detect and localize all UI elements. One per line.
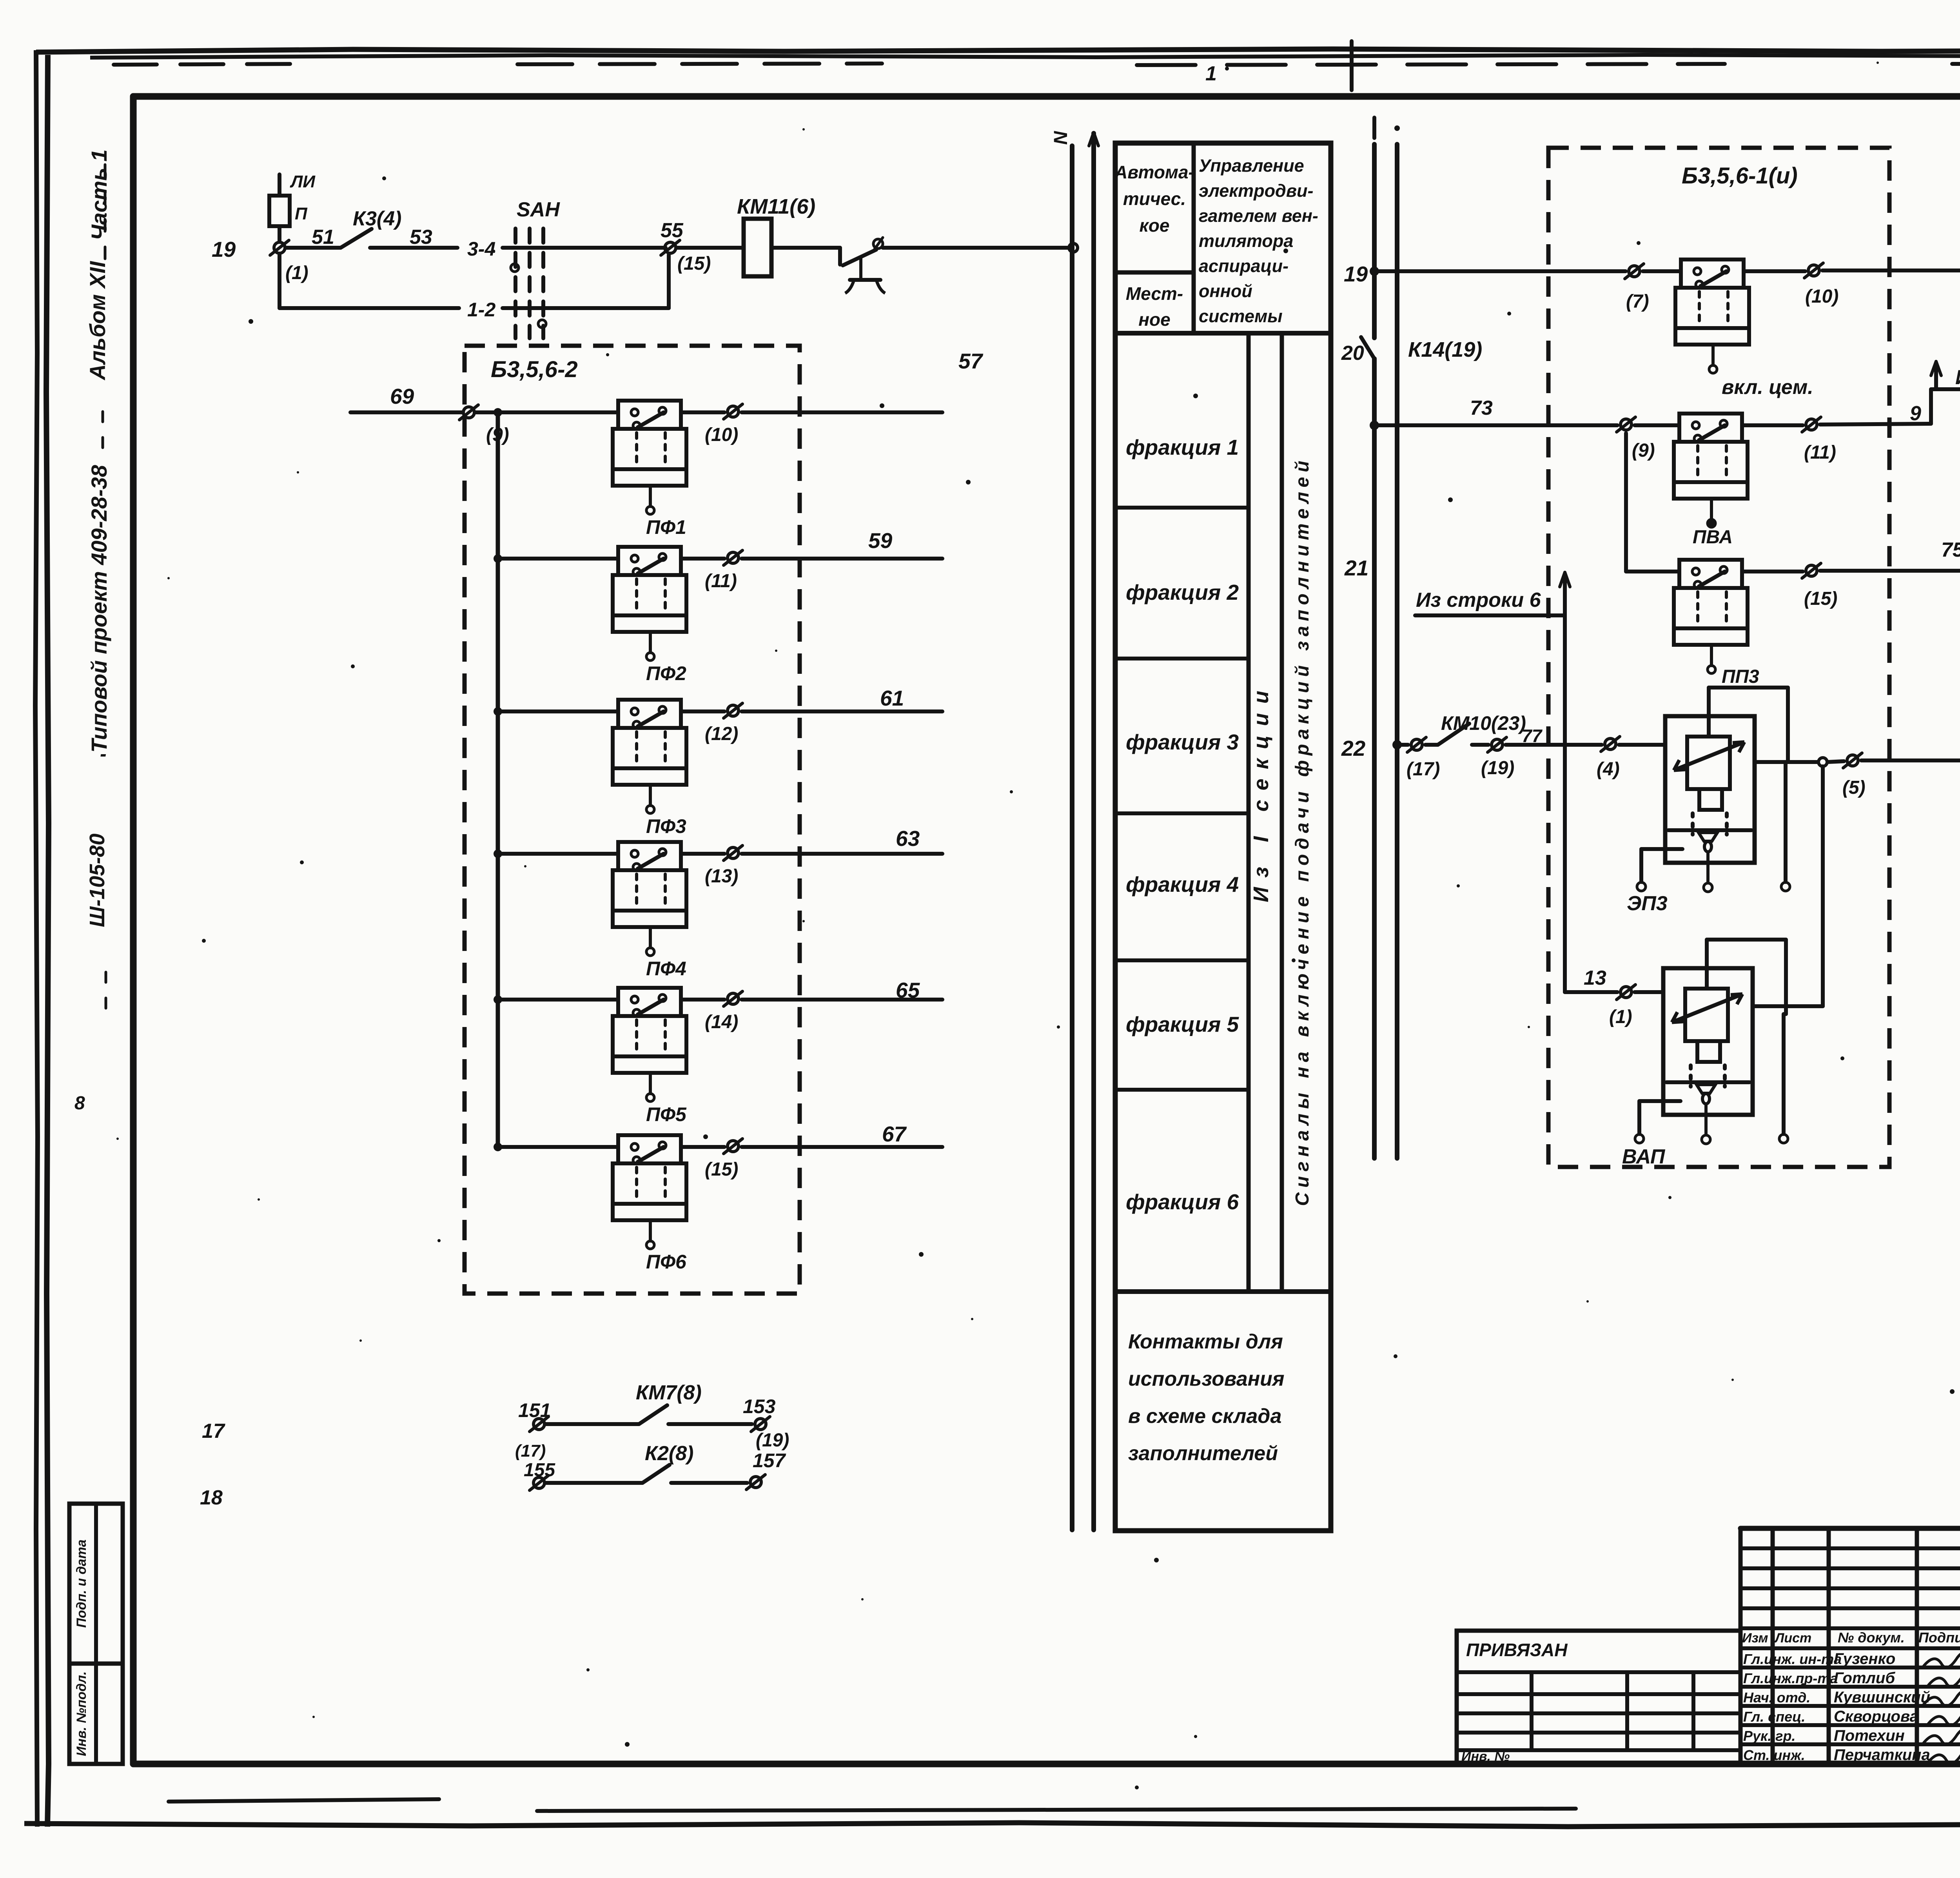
svg-text:(17): (17): [1406, 759, 1440, 780]
svg-text:КМ10(23): КМ10(23): [1441, 712, 1526, 734]
svg-text:П: П: [295, 204, 308, 223]
svg-text:фракция 4: фракция 4: [1126, 872, 1239, 896]
svg-text:Скворцова: Скворцова: [1834, 1708, 1918, 1725]
svg-text:Мест-: Мест-: [1126, 283, 1183, 304]
outer border left: [35, 50, 49, 1827]
svg-text:(15): (15): [1804, 588, 1837, 609]
outer border top: [36, 49, 1960, 65]
svg-text:SАН: SАН: [517, 198, 560, 221]
svg-text:(12): (12): [705, 724, 738, 744]
wire Из строки 4: [1931, 361, 1960, 389]
svg-text:заполнителей: заполнителей: [1128, 1442, 1278, 1465]
wire 73 from bus: [1370, 397, 1617, 430]
wire 1-2 and link down from node 1: [279, 255, 669, 321]
svg-text:73: 73: [1470, 397, 1493, 419]
svg-text:19: 19: [1344, 262, 1368, 286]
outer border bottom: [24, 1799, 1960, 1827]
feedback wire down to ВАП output: [1821, 766, 1825, 1006]
svg-text:Из строки 6: Из строки 6: [1416, 589, 1541, 611]
svg-text:(10): (10): [705, 425, 738, 445]
svg-text:Подпись: Подпись: [1918, 1629, 1960, 1646]
svg-text:использования: использования: [1128, 1368, 1284, 1390]
svg-text:ПП3: ПП3: [1722, 666, 1759, 687]
vertical wire to row 13: [1563, 615, 1567, 992]
wire 51: [287, 246, 341, 250]
terminal (1): [270, 240, 309, 283]
svg-text:Кувшинский: Кувшинский: [1834, 1689, 1930, 1706]
terminal 55 (15): [661, 219, 711, 274]
svg-text:системы: системы: [1199, 306, 1283, 326]
svg-text:(15): (15): [705, 1159, 738, 1180]
svg-text:157: 157: [753, 1450, 786, 1472]
wire Из строки 6 with arrow: [1415, 572, 1570, 615]
svg-text:(11): (11): [705, 571, 737, 592]
relay selector ПФ3 row wire 61: [494, 686, 942, 837]
wire 22 with contact КМ10(23): [1392, 712, 1665, 780]
top band marks: [1205, 41, 1352, 90]
svg-text:Гл. спец.: Гл. спец.: [1743, 1709, 1805, 1725]
bus 2 (right schematic): [1394, 125, 1400, 1158]
svg-text:(13): (13): [705, 866, 738, 887]
svg-text:Гл.инж.пр-та: Гл.инж.пр-та: [1743, 1670, 1838, 1686]
svg-text:(19): (19): [1481, 758, 1514, 778]
svg-text:Готлиб: Готлиб: [1834, 1669, 1895, 1687]
svg-text:75: 75: [1941, 539, 1960, 561]
pushbutton contact: [771, 238, 885, 293]
svg-text:59: 59: [868, 528, 893, 553]
contact КМ7(8) with terminals 151/153: [515, 1381, 789, 1461]
svg-text:ПФ2: ПФ2: [646, 662, 686, 684]
selector switch ПП3: [1626, 560, 1759, 687]
cabinet Б3,5,6-2 (dashed): [465, 346, 800, 1294]
selector switch вкл.цем.: [1643, 259, 1813, 399]
svg-text:1-2: 1-2: [467, 299, 495, 321]
svg-text:Часть 1: Часть 1: [87, 149, 111, 240]
svg-text:63: 63: [896, 826, 920, 851]
revision table header: [1742, 1629, 1960, 1646]
svg-text:19: 19: [212, 237, 236, 261]
svg-text:ЭП3: ЭП3: [1627, 892, 1668, 915]
svg-text:51: 51: [312, 226, 334, 249]
svg-text:18: 18: [200, 1486, 223, 1509]
wire 69 input: [350, 384, 463, 412]
svg-text:55: 55: [661, 219, 684, 242]
svg-text:ное: ное: [1138, 309, 1170, 330]
branch from (9) down to row 75: [1624, 433, 1628, 572]
svg-text:(19): (19): [756, 1430, 789, 1451]
relay selector ПФ6 row wire 67: [494, 1122, 942, 1273]
sidebar stamp texts: [74, 149, 111, 1114]
svg-text:Гузенко: Гузенко: [1834, 1650, 1895, 1668]
row label 20 / contact К14(19): [1341, 338, 1482, 365]
svg-text:151: 151: [518, 1399, 551, 1421]
svg-text:ПРИВЯЗАН: ПРИВЯЗАН: [1466, 1640, 1568, 1660]
svg-text:аспираци-: аспираци-: [1199, 256, 1289, 276]
svg-text:кое: кое: [1140, 215, 1170, 236]
svg-text:(9): (9): [1632, 440, 1655, 461]
fuse П with wire ЛИ: [269, 172, 316, 241]
svg-text:в схеме склада: в схеме склада: [1128, 1405, 1281, 1428]
svg-text:(11): (11): [1804, 442, 1836, 463]
svg-text:(4): (4): [1597, 759, 1620, 780]
svg-text:гателем вен-: гателем вен-: [1199, 206, 1318, 226]
svg-text:(5): (5): [1842, 777, 1866, 798]
svg-text:3-4: 3-4: [467, 238, 495, 260]
svg-text:1: 1: [1205, 62, 1217, 85]
svg-text:Нач. отд.: Нач. отд.: [1743, 1689, 1810, 1706]
svg-text:N: N: [1051, 131, 1071, 145]
svg-text:Гл.инж. ин-та: Гл.инж. ин-та: [1743, 1651, 1842, 1667]
svg-text:электродви-: электродви-: [1199, 181, 1314, 201]
wire 53: [370, 246, 457, 250]
svg-text:К14(19): К14(19): [1408, 338, 1482, 361]
bus + (left): [1089, 132, 1098, 1530]
svg-text:20: 20: [1341, 342, 1364, 365]
switch SAH: [511, 198, 560, 338]
svg-text:9: 9: [1910, 402, 1921, 425]
svg-text:17: 17: [202, 1420, 225, 1443]
svg-text:8: 8: [74, 1093, 85, 1114]
svg-text:ПФ5: ПФ5: [646, 1103, 687, 1125]
svg-text:13: 13: [1584, 967, 1606, 989]
svg-text:Из I секции: Из I секции: [1249, 681, 1273, 902]
sidebar bottom boxes: [69, 1504, 123, 1764]
svg-text:Лист: Лист: [1774, 1631, 1811, 1646]
svg-text:Рук. гр.: Рук. гр.: [1743, 1728, 1796, 1744]
svg-text:21: 21: [1344, 556, 1368, 580]
signature rows: [1743, 1650, 1960, 1764]
svg-text:фракция 1: фракция 1: [1126, 435, 1239, 459]
svg-text:(7): (7): [1626, 291, 1649, 312]
svg-text:фракция 3: фракция 3: [1126, 730, 1239, 754]
svg-text:(1): (1): [285, 263, 309, 283]
svg-text:65: 65: [896, 978, 920, 1002]
svg-text:Изм: Изм: [1742, 1631, 1768, 1646]
svg-text:КМ11(6): КМ11(6): [737, 195, 815, 218]
svg-text:Типовой проект 409-28-38: Типовой проект 409-28-38: [87, 465, 111, 753]
bus 1 (right schematic, with K14 contact): [1361, 118, 1374, 1158]
svg-text:-: -: [100, 743, 107, 765]
svg-text:61: 61: [880, 686, 904, 710]
svg-text:Ш-105-80: Ш-105-80: [85, 834, 109, 927]
svg-text:69: 69: [390, 384, 414, 408]
svg-text:(10): (10): [1805, 286, 1838, 307]
ВАП output wire up to node: [1753, 1004, 1823, 1008]
svg-text:Автома-: Автома-: [1114, 162, 1194, 182]
svg-text:ПФ6: ПФ6: [646, 1251, 687, 1273]
svg-text:ПВА: ПВА: [1693, 527, 1733, 548]
table header texts: [1114, 156, 1318, 330]
svg-text:Ст. инж.: Ст. инж.: [1743, 1747, 1805, 1763]
wire 9 via terminal (11) up to line from row 4: [1742, 389, 1931, 463]
contact К3(4): [341, 207, 401, 248]
svg-text:67: 67: [882, 1122, 907, 1146]
svg-text:К3(4): К3(4): [353, 207, 401, 230]
cabinet Б3,5,6-1(и) (dashed): [1548, 148, 1889, 1167]
svg-text:Б3,5,6-1(и): Б3,5,6-1(и): [1682, 163, 1798, 189]
pressure device ЭП3: [1627, 688, 1790, 915]
terminal (9) left cabinet: [459, 405, 509, 445]
fraction rows: [1126, 435, 1240, 1214]
relay selector ПФ2 row wire 59: [494, 528, 942, 684]
svg-text:Перчаткина: Перчаткина: [1834, 1746, 1930, 1764]
svg-text:22: 22: [1341, 736, 1366, 760]
coil КМ11(6): [677, 195, 815, 276]
svg-text:тилятора: тилятора: [1199, 231, 1293, 251]
svg-text:57: 57: [958, 349, 984, 373]
svg-text:ПФ4: ПФ4: [646, 958, 686, 980]
svg-text:ЛИ: ЛИ: [290, 172, 316, 191]
svg-text:вкл. цем.: вкл. цем.: [1722, 376, 1813, 399]
svg-text:Потехин: Потехин: [1834, 1727, 1905, 1744]
svg-text:Контакты для: Контакты для: [1128, 1330, 1283, 1353]
relay selector ПФ4 row wire 63: [494, 826, 942, 980]
svg-text:(17): (17): [515, 1441, 546, 1461]
svg-text:Альбом XII: Альбом XII: [85, 261, 110, 381]
svg-text:(1): (1): [1609, 1007, 1632, 1027]
svg-text:онной: онной: [1199, 281, 1252, 301]
svg-text:фракция 6: фракция 6: [1126, 1190, 1239, 1214]
ПРИВЯЗАН table: [1457, 1631, 1740, 1764]
svg-text:(14): (14): [705, 1012, 738, 1032]
relay selector ПФ5 row wire 65: [494, 978, 942, 1125]
wire 71 via terminal (10) to relay К14: [1744, 256, 1960, 307]
svg-text:ПФ1: ПФ1: [646, 516, 686, 538]
svg-text:ПФ3: ПФ3: [646, 815, 686, 837]
svg-text:Инв. №: Инв. №: [1461, 1749, 1510, 1764]
svg-text:ВАП: ВАП: [1622, 1145, 1666, 1168]
wire to bus N: [883, 243, 1078, 252]
pressure device ВАП: [1622, 940, 1788, 1168]
svg-text:фракция 5: фракция 5: [1126, 1012, 1240, 1036]
terminal (9) right: [1617, 417, 1655, 461]
svg-text:Сигналы на включение подачи: Сигналы на включение подачи фракций запо…: [1292, 456, 1313, 1206]
svg-text:155: 155: [524, 1460, 555, 1481]
svg-text:Инв. №подл.: Инв. №подл.: [74, 1671, 89, 1756]
svg-text:Подп. и дата: Подп. и дата: [74, 1539, 89, 1628]
contact К2(8) with terminals 155/157: [524, 1442, 786, 1490]
svg-text:Из строки 4: Из строки 4: [1955, 366, 1960, 389]
svg-text:КМ7(8): КМ7(8): [636, 1381, 702, 1404]
wire 3-4: [467, 238, 666, 260]
svg-text:К2(8): К2(8): [645, 1442, 693, 1465]
svg-text:53: 53: [410, 226, 432, 249]
svg-text:(15): (15): [677, 253, 711, 274]
wire 75 via terminal (15) to relay К15: [1742, 539, 1960, 609]
revision / signature table: [1740, 1528, 1960, 1764]
svg-text:Управление: Управление: [1199, 156, 1304, 176]
output wire row 22 via node and terminal (5) to bus: [1755, 753, 1960, 798]
wire 19 from bus to terminal (7): [1370, 264, 1649, 312]
internal bus of Б3,5,6-2: [476, 408, 502, 1147]
signal table frame: [1115, 143, 1331, 1531]
selector switch ПВА: [1635, 414, 1748, 548]
svg-text:№ докум.: № докум.: [1838, 1629, 1905, 1646]
note: Контакты для использования: [1128, 1330, 1284, 1465]
bus N (left): [1051, 131, 1072, 1530]
svg-text:тичес.: тичес.: [1123, 189, 1186, 209]
relay selector ПФ1 row wire 57: [498, 349, 984, 538]
svg-text:153: 153: [743, 1395, 776, 1417]
svg-text:Б3,5,6-2: Б3,5,6-2: [491, 357, 578, 382]
wire 13 with terminal (1): [1565, 967, 1663, 1027]
svg-text:фракция 2: фракция 2: [1126, 580, 1239, 604]
